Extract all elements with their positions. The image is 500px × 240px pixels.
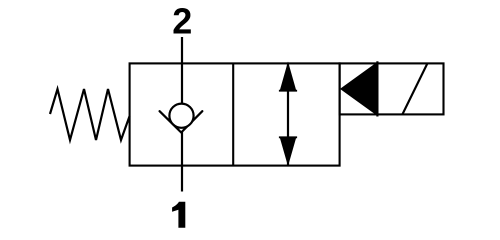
flow arrowhead down: [279, 136, 297, 166]
flow arrowhead up: [279, 62, 297, 92]
flow double arrow shaft: [287, 63, 289, 165]
wire: port 1 line: [181, 132, 183, 192]
port label 1: [172, 202, 185, 228]
check valve seat (V): [160, 111, 203, 132]
svg-text:2: 2: [172, 1, 192, 42]
solenoid actuator triangle: [341, 63, 378, 116]
position divider line: [232, 63, 234, 165]
check valve poppet ball: [169, 104, 193, 128]
spring: [50, 89, 130, 140]
solenoid box: [340, 63, 444, 114]
solenoid armature tick: [376, 61, 378, 116]
solenoid slash: [403, 63, 428, 114]
valve body envelope (two positions): [130, 63, 340, 165]
wire: port 2 line: [181, 37, 183, 107]
